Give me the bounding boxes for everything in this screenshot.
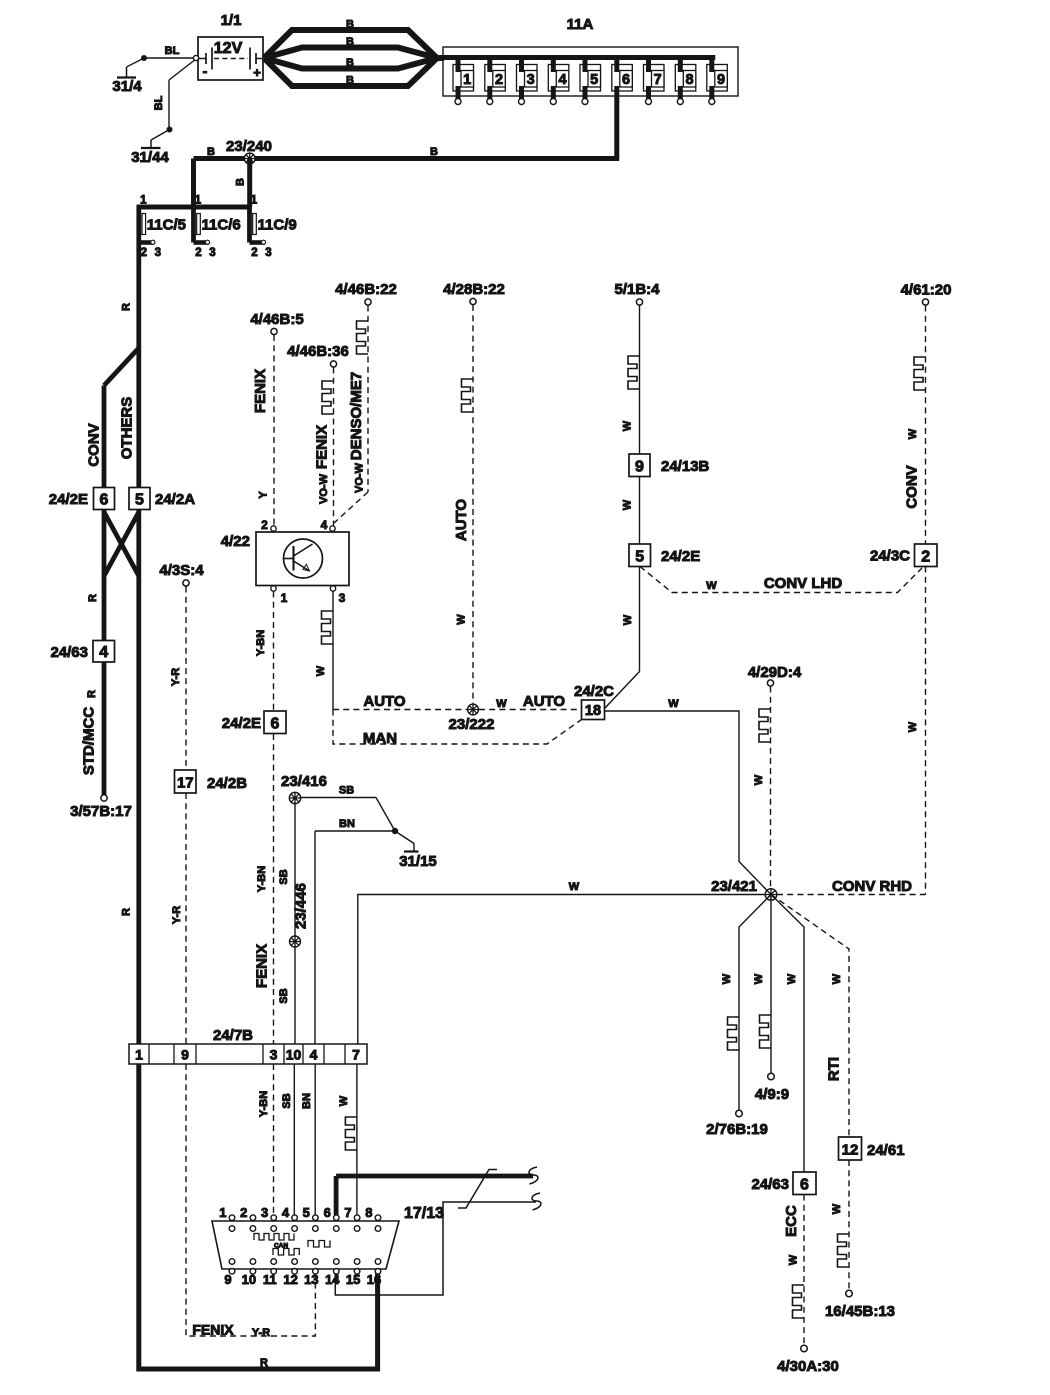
svg-text:FENIX: FENIX <box>314 425 331 469</box>
svg-text:9: 9 <box>181 1047 189 1063</box>
svg-text:11C/5: 11C/5 <box>147 217 186 234</box>
svg-text:SB: SB <box>339 785 354 797</box>
svg-text:CONV LHD: CONV LHD <box>764 575 843 592</box>
svg-text:BL: BL <box>153 95 165 110</box>
svg-text:8: 8 <box>365 1205 372 1220</box>
fuse 8 <box>675 55 696 105</box>
svg-text:Y-BN: Y-BN <box>255 630 267 656</box>
svg-text:17/13: 17/13 <box>404 1205 444 1222</box>
connector 24/2C pin 18 <box>574 683 614 720</box>
ground 31/15 <box>392 828 437 870</box>
wire Y-BN to 17/13 pin 3 <box>258 1064 274 1215</box>
connector 17/13 <box>212 1205 444 1287</box>
svg-text:FENIX: FENIX <box>252 369 269 413</box>
svg-text:12: 12 <box>283 1272 297 1287</box>
svg-text:11: 11 <box>263 1272 277 1287</box>
svg-text:4/30A:30: 4/30A:30 <box>777 1358 839 1375</box>
svg-text:4/22: 4/22 <box>221 533 250 550</box>
svg-text:2: 2 <box>251 247 257 259</box>
connector 24/63 pin 4 <box>50 641 114 663</box>
wire W ECC dashed to 4/30A:30 <box>783 1195 804 1346</box>
terminal 4/29D:4 <box>748 664 802 686</box>
svg-text:1/1: 1/1 <box>221 12 242 29</box>
svg-text:24/61: 24/61 <box>867 1142 905 1159</box>
terminal 4/46B:22 <box>335 281 397 305</box>
wire 17/13 pin 14 with break <box>335 1193 541 1295</box>
wire W dashed 4/29D:4 to 23/421 <box>753 687 771 892</box>
svg-text:6: 6 <box>100 492 109 509</box>
svg-text:2: 2 <box>495 72 503 88</box>
svg-text:W: W <box>831 1203 843 1214</box>
svg-text:3: 3 <box>527 72 535 88</box>
wire W CONV LHD dashed 24/2E to 24/3C <box>640 567 922 593</box>
svg-text:STD/MCC: STD/MCC <box>81 707 98 775</box>
connector 11C/5 <box>139 195 186 260</box>
junction 23/240 <box>226 138 272 164</box>
svg-text:Y: Y <box>258 491 270 499</box>
wire B braid battery to fuse box (4 conductors) <box>264 19 444 87</box>
svg-text:5: 5 <box>135 492 144 509</box>
svg-text:4: 4 <box>310 1047 318 1063</box>
svg-text:BN: BN <box>301 1093 313 1109</box>
connector 24/61 pin 12 <box>839 1137 905 1160</box>
svg-text:24/2E: 24/2E <box>661 548 700 565</box>
svg-text:24/2E: 24/2E <box>49 491 88 508</box>
wire W 4/22 pin 3 down <box>315 592 333 710</box>
svg-text:Y-R: Y-R <box>170 668 182 686</box>
wire SB to ground junction <box>301 785 396 832</box>
svg-text:12: 12 <box>842 1142 859 1159</box>
svg-text:18: 18 <box>585 703 601 719</box>
svg-text:BN: BN <box>339 818 355 830</box>
svg-text:31/4: 31/4 <box>112 78 142 95</box>
wire R from 11C/5 pin 2 down (OTHERS trunk) <box>121 243 139 488</box>
svg-text:SB: SB <box>278 988 290 1003</box>
svg-text:16: 16 <box>367 1272 381 1287</box>
wire MAN dashed <box>333 710 582 748</box>
wire CONV RHD dashed <box>777 878 926 895</box>
wire BL battery negative to ground 31/4 <box>127 45 197 67</box>
svg-text:23/240: 23/240 <box>226 138 272 155</box>
svg-text:R: R <box>260 1357 268 1369</box>
svg-text:B: B <box>346 36 354 48</box>
svg-text:R: R <box>87 594 99 602</box>
svg-text:4/29D:4: 4/29D:4 <box>748 664 802 681</box>
wire W dashed to 16/45B:13 <box>831 1160 849 1290</box>
svg-text:2/76B:19: 2/76B:19 <box>706 1121 768 1138</box>
svg-text:VO-W: VO-W <box>318 473 330 504</box>
junction 23/416 <box>281 773 327 804</box>
fuse 2 <box>485 55 506 105</box>
ground 31/4 <box>112 67 142 95</box>
wire W 23/421 to 24/7B pin 7 <box>358 881 765 1044</box>
svg-text:VO-W: VO-W <box>354 462 366 493</box>
svg-text:12V: 12V <box>214 40 243 57</box>
svg-text:11C/9: 11C/9 <box>258 217 297 234</box>
terminal 4/9:9 <box>755 1073 789 1103</box>
wire VO-W dashed 4/46B:22 to 4/22 pin 4 <box>334 306 368 524</box>
connector 24/63 pin 6 <box>751 1172 816 1195</box>
fuse 4 <box>548 55 569 105</box>
wire W 5/1B:4 down to 24/2C <box>605 306 640 709</box>
svg-text:10: 10 <box>242 1272 256 1287</box>
connector 24/2E pin 6 <box>49 488 115 510</box>
svg-text:3/57B:17: 3/57B:17 <box>70 803 132 820</box>
fuse 1 <box>453 55 474 105</box>
svg-text:24/7B: 24/7B <box>213 1027 253 1044</box>
svg-text:10: 10 <box>286 1047 302 1063</box>
svg-text:2: 2 <box>195 247 201 259</box>
connector 24/13B pin 9 <box>629 454 710 477</box>
svg-text:W: W <box>622 499 634 510</box>
wire W dashed 4/28B:22 to 23/222 <box>453 305 473 704</box>
svg-text:Y-BN: Y-BN <box>258 1091 270 1117</box>
svg-text:W: W <box>907 721 919 732</box>
svg-text:24/2E: 24/2E <box>222 715 261 732</box>
pin 4 of 4/22 <box>321 518 336 532</box>
svg-text:23/446: 23/446 <box>293 883 310 929</box>
svg-text:W: W <box>831 973 843 984</box>
connector 24/3C pin 2 <box>870 544 937 567</box>
svg-text:23/222: 23/222 <box>449 716 495 733</box>
svg-text:7: 7 <box>344 1205 351 1220</box>
svg-text:W: W <box>753 973 765 984</box>
svg-text:24/2B: 24/2B <box>207 775 247 792</box>
svg-text:R: R <box>121 908 133 916</box>
svg-text:W: W <box>456 614 468 625</box>
svg-text:6: 6 <box>622 72 630 88</box>
terminal 16/45B:13 <box>825 1290 895 1320</box>
svg-text:5/1B:4: 5/1B:4 <box>614 281 660 298</box>
svg-text:W: W <box>786 973 798 984</box>
wire break slash <box>458 1170 497 1209</box>
svg-text:4/46B:5: 4/46B:5 <box>250 311 303 328</box>
svg-text:Y-R: Y-R <box>171 906 183 924</box>
svg-text:23/416: 23/416 <box>281 773 327 790</box>
svg-text:OTHERS: OTHERS <box>119 397 136 460</box>
svg-text:3: 3 <box>270 1047 278 1063</box>
svg-text:B: B <box>430 146 438 158</box>
svg-text:1: 1 <box>251 195 258 207</box>
svg-text:1: 1 <box>195 195 202 207</box>
svg-text:23/421: 23/421 <box>711 878 757 895</box>
connector 24/2E pin 5 <box>629 544 700 567</box>
connector 11C/6 <box>194 195 241 260</box>
svg-text:W: W <box>496 698 507 710</box>
svg-text:3: 3 <box>209 247 215 259</box>
svg-text:11A: 11A <box>567 16 594 33</box>
svg-text:9: 9 <box>717 72 725 88</box>
wire W 24/2C to 23/421 <box>605 698 772 895</box>
svg-text:AUTO: AUTO <box>523 693 566 710</box>
connector 24/2B pin 17 <box>175 770 248 793</box>
svg-text:MAN: MAN <box>363 730 397 747</box>
wire VO-W dashed 4/46B:36 to 4/22 pin 4 <box>314 368 334 526</box>
svg-text:5: 5 <box>590 72 598 88</box>
wire SB to 17/13 pin 4 <box>281 1064 294 1215</box>
svg-text:9: 9 <box>635 459 644 476</box>
wire W to 17/13 pin 7 <box>338 1064 357 1215</box>
terminal 4/61:20 <box>901 282 952 306</box>
terminal 2/76B:19 <box>706 1110 768 1138</box>
wire to 11C/6 pin 1 <box>191 159 196 208</box>
wire B thick 17/13 pin 6 with break <box>336 1167 538 1215</box>
svg-text:4: 4 <box>282 1205 290 1220</box>
junction 23/222 <box>449 704 495 733</box>
svg-text:W: W <box>788 1254 800 1265</box>
svg-text:W: W <box>721 973 733 984</box>
wire bus linking 11C pin 1 terminals <box>137 205 250 210</box>
svg-text:4: 4 <box>321 518 328 532</box>
terminal 4/46B:36 <box>287 343 349 367</box>
wire R / STD/MCC to 3/57B:17 <box>81 662 105 795</box>
svg-text:1: 1 <box>140 195 147 207</box>
svg-text:24/2C: 24/2C <box>574 683 614 700</box>
svg-text:8: 8 <box>685 72 693 88</box>
junction 23/446 <box>290 883 310 947</box>
wire SB 23/416 down to 24/7B pin 10 <box>278 804 295 1045</box>
svg-text:4/46B:36: 4/46B:36 <box>287 343 349 360</box>
svg-text:1: 1 <box>463 72 471 88</box>
svg-text:4/28B:22: 4/28B:22 <box>443 281 505 298</box>
svg-text:-: - <box>203 63 208 79</box>
terminal 4/3S:4 <box>159 562 204 586</box>
svg-text:5: 5 <box>303 1205 310 1220</box>
wire Y dashed 4/46B:5 to 4/22 pin 2 <box>252 335 274 526</box>
svg-text:16/45B:13: 16/45B:13 <box>825 1303 895 1320</box>
svg-text:1: 1 <box>135 1047 143 1063</box>
fuse 6 <box>612 55 633 100</box>
connector 24/7B <box>129 1027 367 1064</box>
svg-text:4/3S:4: 4/3S:4 <box>159 562 204 579</box>
svg-text:FENIX: FENIX <box>192 1322 234 1338</box>
svg-text:7: 7 <box>654 72 662 88</box>
svg-text:4/61:20: 4/61:20 <box>901 282 952 299</box>
svg-text:CONV: CONV <box>86 423 103 466</box>
wire Y-R dashed to 24/7B pin 9 <box>170 587 186 1045</box>
ground 31/44 <box>131 148 169 166</box>
svg-text:6: 6 <box>271 716 280 733</box>
svg-text:2: 2 <box>240 1205 247 1220</box>
svg-text:3: 3 <box>261 1205 268 1220</box>
svg-text:1: 1 <box>281 591 288 605</box>
svg-text:9: 9 <box>224 1272 231 1287</box>
wire BN to 17/13 pin 5 <box>301 1064 315 1215</box>
terminal 4/46B:5 <box>250 311 303 335</box>
svg-text:31/15: 31/15 <box>399 853 437 870</box>
wire B bus inside fuse box <box>443 55 715 60</box>
wire BL battery to ground 31/44 <box>151 59 196 148</box>
wire W 23/421 to 24/63 <box>771 895 804 1173</box>
svg-text:6: 6 <box>324 1205 331 1220</box>
svg-text:W: W <box>706 580 717 592</box>
svg-text:B: B <box>346 57 354 69</box>
wire W dashed 24/3C down to CONV RHD <box>907 567 926 895</box>
wire X crossover below connectors <box>104 510 139 1045</box>
wire R thick 24/7B pin 1 down to bottom bus <box>139 1064 378 1369</box>
wire W 23/421 to 2/76B:19 <box>721 895 771 1111</box>
connector 24/2E pin 6 (FENIX) <box>222 711 286 734</box>
svg-text:B: B <box>207 146 215 158</box>
svg-text:W: W <box>338 1095 350 1106</box>
wire Y-R FENIX dashed loop to 17/13 pin 13 <box>186 1064 315 1339</box>
terminal 3/57B:17 <box>70 795 132 820</box>
svg-text:2: 2 <box>141 247 147 259</box>
svg-text:Y-BN: Y-BN <box>256 866 268 892</box>
svg-text:1: 1 <box>219 1205 226 1220</box>
svg-text:24/2A: 24/2A <box>155 491 195 508</box>
svg-text:2: 2 <box>261 518 268 532</box>
wire Y-BN dashed 4/22 pin 1 to 24/7B pin 3 <box>255 592 274 1045</box>
battery 1/1 12V <box>193 12 263 80</box>
svg-text:4: 4 <box>558 72 566 88</box>
svg-text:R: R <box>86 690 98 698</box>
svg-text:CONV: CONV <box>904 465 921 508</box>
svg-text:W: W <box>622 420 634 431</box>
svg-text:BL: BL <box>165 45 180 57</box>
svg-text:7: 7 <box>352 1047 360 1063</box>
svg-text:24/13B: 24/13B <box>661 458 710 475</box>
svg-text:B: B <box>346 75 354 87</box>
svg-text:15: 15 <box>346 1272 360 1287</box>
svg-text:24/3C: 24/3C <box>870 548 910 565</box>
svg-text:4/46B:22: 4/46B:22 <box>335 281 397 298</box>
svg-text:17: 17 <box>177 775 194 792</box>
svg-text:R: R <box>121 303 133 311</box>
svg-text:+: + <box>253 65 261 80</box>
wire B junction to 11C/9 pin 1 <box>235 159 250 208</box>
wire W 23/421 to 4/9:9 <box>753 895 771 1074</box>
junction 23/421 <box>711 878 777 900</box>
wire B fuse 6 to junction 23/240 <box>194 99 620 159</box>
pin 3 of 4/22 <box>330 586 345 605</box>
svg-text:W: W <box>668 698 679 710</box>
svg-text:ECC: ECC <box>783 1205 800 1237</box>
svg-text:SB: SB <box>281 1093 293 1108</box>
svg-text:DENSO/ME7: DENSO/ME7 <box>348 372 365 460</box>
wire BN to 24/7B pin 4 <box>315 818 395 1044</box>
svg-text:RTI: RTI <box>826 1057 843 1081</box>
svg-text:3: 3 <box>155 247 161 259</box>
svg-text:W: W <box>315 665 327 676</box>
svg-text:SB: SB <box>278 869 290 884</box>
svg-text:3: 3 <box>339 591 346 605</box>
wire W dashed 4/61:20 to 24/3C <box>904 306 926 545</box>
pin 1 of 4/22 <box>271 586 288 605</box>
svg-text:4/9:9: 4/9:9 <box>755 1086 789 1103</box>
connector 11C/9 <box>250 195 297 260</box>
terminal 4/30A:30 <box>777 1345 839 1375</box>
fuse 3 <box>517 55 538 105</box>
svg-text:24/63: 24/63 <box>50 644 88 661</box>
svg-text:Y-R: Y-R <box>252 1327 270 1339</box>
fuse 5 <box>580 55 601 105</box>
wire AUTO dashed <box>333 693 582 710</box>
svg-text:W: W <box>622 614 634 625</box>
amplifier 4/22 <box>221 532 349 586</box>
pin 2 of 4/22 <box>261 518 276 532</box>
svg-text:31/44: 31/44 <box>131 149 169 166</box>
wire W RTI dashed 23/421 to 24/61 <box>771 895 849 1138</box>
connector 24/2A pin 5 <box>129 488 195 510</box>
wire CONV branch split <box>104 348 139 488</box>
svg-text:6: 6 <box>800 1177 809 1194</box>
terminal 5/1B:4 <box>614 281 660 305</box>
svg-text:W: W <box>569 881 580 893</box>
terminal 4/28B:22 <box>443 281 505 305</box>
svg-text:5: 5 <box>635 549 644 566</box>
svg-text:14: 14 <box>325 1272 340 1287</box>
svg-text:W: W <box>753 774 765 785</box>
fuse box 11A <box>443 16 738 96</box>
svg-text:B: B <box>346 19 354 31</box>
fuse 7 <box>644 55 665 105</box>
svg-text:2: 2 <box>921 549 930 566</box>
svg-text:AUTO: AUTO <box>453 499 470 542</box>
svg-text:13: 13 <box>304 1272 318 1287</box>
svg-text:4: 4 <box>99 644 108 661</box>
svg-text:11C/6: 11C/6 <box>202 217 241 234</box>
svg-text:AUTO: AUTO <box>363 693 406 710</box>
svg-text:W: W <box>907 428 919 439</box>
svg-text:CONV RHD: CONV RHD <box>832 878 912 895</box>
svg-text:B: B <box>235 178 247 186</box>
fuse 9 <box>707 55 728 105</box>
svg-text:24/63: 24/63 <box>751 1176 789 1193</box>
svg-text:FENIX: FENIX <box>254 944 271 988</box>
svg-text:3: 3 <box>265 247 271 259</box>
